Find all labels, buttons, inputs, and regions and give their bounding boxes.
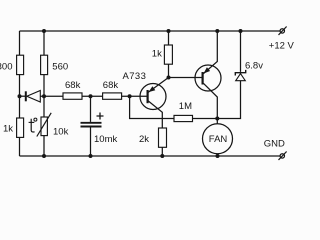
svg-text:GND: GND bbox=[264, 138, 285, 149]
svg-text:300: 300 bbox=[0, 61, 13, 72]
svg-text:+12 V: +12 V bbox=[269, 41, 295, 52]
svg-text:FAN: FAN bbox=[209, 134, 228, 145]
svg-text:2k: 2k bbox=[139, 134, 149, 145]
svg-text:560: 560 bbox=[52, 61, 68, 72]
svg-text:10k: 10k bbox=[53, 126, 69, 137]
svg-text:1k: 1k bbox=[152, 48, 162, 59]
svg-text:6.8v: 6.8v bbox=[245, 60, 263, 71]
svg-text:1M: 1M bbox=[179, 101, 192, 112]
svg-text:10mk: 10mk bbox=[94, 134, 117, 145]
svg-text:1k: 1k bbox=[3, 123, 13, 134]
svg-text:68k: 68k bbox=[103, 80, 119, 91]
svg-text:A733: A733 bbox=[123, 71, 147, 82]
svg-text:68k: 68k bbox=[65, 80, 81, 91]
